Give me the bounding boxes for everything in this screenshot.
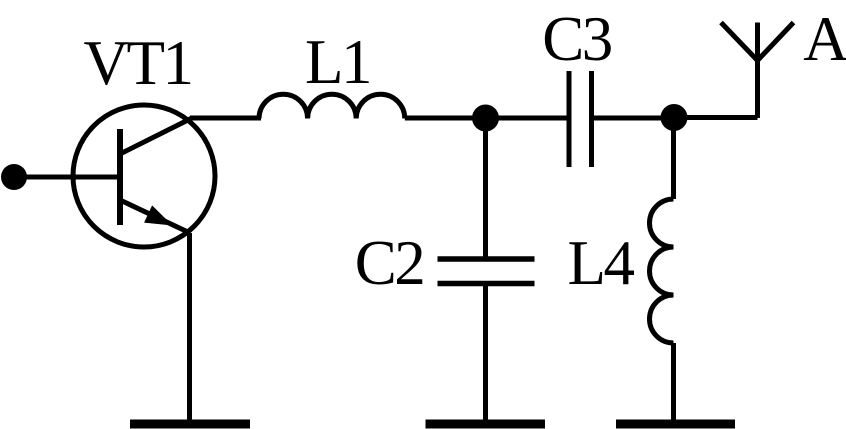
inductor L1 (259, 94, 405, 118)
node junction dot left (472, 105, 499, 132)
ground 3 (616, 420, 735, 429)
input terminal dot (1, 164, 27, 190)
wire base lead (14, 175, 120, 180)
svg-text:A: A (803, 4, 846, 74)
capacitor C2 (438, 259, 535, 284)
ground 1 (130, 420, 250, 429)
wire node to C2 (483, 118, 488, 259)
wire C3 to node (592, 116, 675, 121)
wire node to C3 (486, 116, 570, 121)
wire L1 to node (405, 116, 486, 121)
wire node to L4 (671, 118, 676, 200)
svg-text:C2: C2 (355, 228, 424, 298)
wire collector to L1 (190, 116, 261, 121)
capacitor C3 (569, 71, 592, 167)
svg-text:L4: L4 (568, 228, 635, 298)
transistor VT1 (73, 105, 215, 247)
svg-text:L1: L1 (305, 27, 370, 97)
svg-text:VT1: VT1 (84, 28, 192, 98)
inductor L4 (650, 199, 674, 343)
svg-text:C3: C3 (542, 4, 612, 74)
antenna A (721, 23, 794, 119)
wire emitter to ground (187, 233, 192, 422)
ground 2 (426, 420, 546, 429)
wire node to antenna (674, 115, 758, 120)
node junction dot right (661, 104, 688, 131)
wire C2 to ground (483, 284, 488, 423)
wire L4 to ground (671, 343, 676, 422)
